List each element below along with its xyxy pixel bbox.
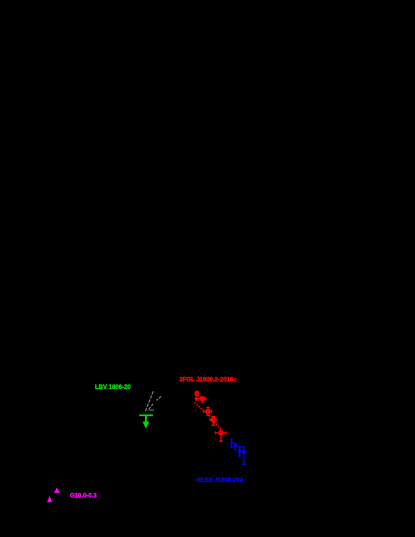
blue data point B3	[238, 447, 241, 456]
red data point S2	[195, 396, 205, 402]
svg-text:HESS J1808-204: HESS J1808-204	[196, 478, 243, 484]
svg-text:G10.0-0.3: G10.0-0.3	[70, 494, 97, 500]
grey model line segment B	[156, 396, 161, 400]
grey horizontal tick	[149, 409, 154, 411]
red data point S3	[203, 408, 211, 416]
green arrow shaft	[145, 415, 147, 424]
red data point S1	[195, 391, 199, 400]
grey model line segment C	[148, 404, 154, 411]
svg-text:LBV 1806-20: LBV 1806-20	[95, 385, 131, 391]
svg-text:3FGL J1809.2-2016c: 3FGL J1809.2-2016c	[179, 378, 237, 384]
red dotted model line	[194, 403, 221, 430]
magenta triangle T2	[47, 496, 52, 503]
red data point S4	[210, 417, 217, 426]
red data point S5	[216, 429, 227, 441]
blue data point B4	[239, 447, 247, 464]
green upper-limit bar	[139, 414, 153, 416]
green arrow head	[143, 422, 150, 429]
grey model line segment A	[145, 391, 153, 411]
blue data point B2	[233, 443, 237, 450]
blue data point B1	[230, 439, 233, 447]
magenta triangle T1	[54, 487, 60, 493]
